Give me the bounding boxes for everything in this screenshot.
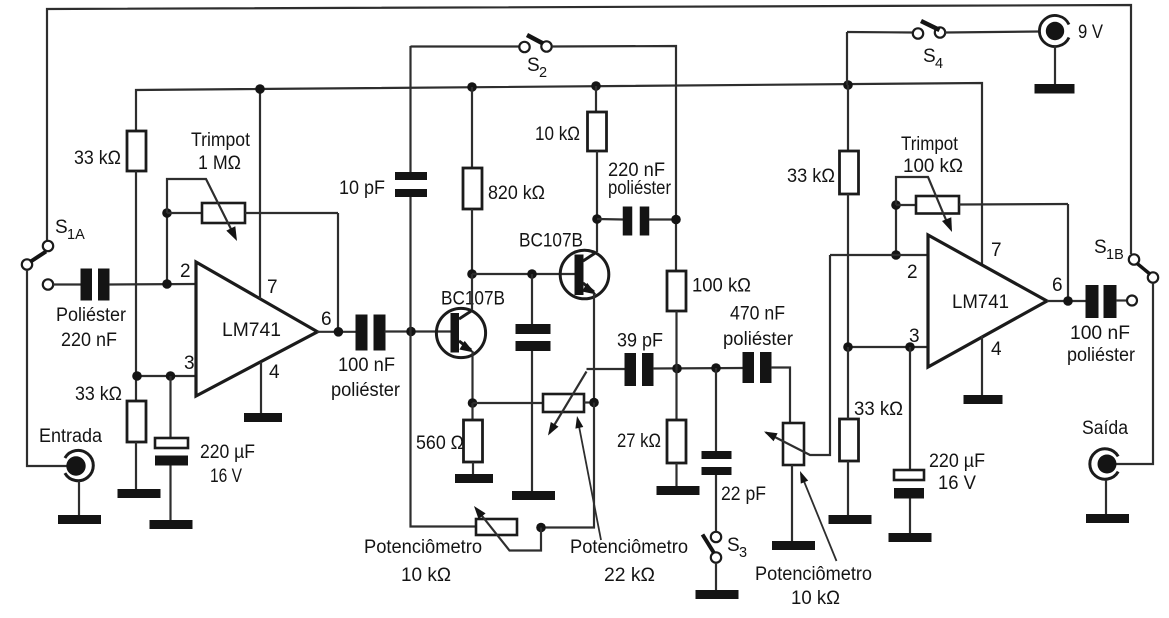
node rail 10k [591,81,601,91]
svg-text:4: 4 [991,339,1002,360]
wire 220nF mid right [649,218,676,220]
wire S4 left [847,31,913,34]
wire trimpot left drop to pin2 [166,213,168,284]
wire rail to 820k [471,87,473,168]
wire S2 right [552,46,676,271]
svg-text:39 pF: 39 pF [617,331,663,352]
wire cap to output circle [1116,299,1127,301]
jack Saída [1090,449,1118,479]
wire pin4 U1 [260,362,262,413]
wire node to 27k [675,368,677,420]
resistor 100k [667,271,686,311]
svg-text:Saída: Saída [1082,418,1128,439]
wire 39pF left [587,368,626,370]
wire 33k divider [135,171,137,401]
svg-text:7: 7 [991,240,1002,261]
wire 27k to ground [675,463,677,486]
svg-text:Potenciômetro: Potenciômetro [570,537,688,558]
svg-text:3: 3 [909,326,920,347]
leader 22k pot [578,420,601,540]
wire 220uF branch [169,376,171,438]
open terminal output [1127,296,1137,306]
wire Q2 emitter down [593,294,595,402]
wire pot 22k [473,402,544,404]
wire Saida to ground [1105,480,1107,514]
wire pin2 U2 [830,254,928,256]
svg-text:Trimpot: Trimpot [191,130,251,151]
switch S1A [43,241,53,251]
resistor 27k [667,420,686,463]
svg-text:220 µF: 220 µF [929,451,985,472]
wire battery to ground [1054,46,1056,84]
transistor Q1 BC107B [436,308,485,357]
wire U1 output [317,331,356,333]
capacitor 39 pF [625,353,637,386]
wire 33k right to ground [847,461,849,515]
wire S3 to ground [715,563,717,590]
capacitor 100nF poliester right [1086,285,1099,318]
wire 220uF to ground [169,466,171,521]
svg-text:1B: 1B [1106,247,1124,263]
wire pin4 U2 [981,336,983,395]
svg-text:LM741: LM741 [222,320,281,341]
wire 10k to Q2 collector [596,151,598,252]
svg-text:Potenciômetro: Potenciômetro [755,564,872,585]
pot 10k bottom wiper [477,509,542,551]
svg-text:Potenciômetro: Potenciômetro [364,537,482,558]
resistor 10k [588,112,607,151]
ground 220uF left [150,520,193,529]
wire emitter to 560 [471,403,473,420]
capacitor 100nF poliester left [356,315,368,351]
pot 22k wiper [550,372,587,434]
wire 22pF to S3 [715,475,717,532]
wire S4 drop [846,32,848,85]
ground 560R [455,474,493,483]
wire S2 left [411,45,520,47]
svg-text:2: 2 [539,65,547,81]
ground 9V [1035,84,1075,94]
wire pot right to ground [791,465,793,541]
wire 220uF right to ground [909,499,911,534]
wire top border [47,5,1131,254]
trimpot 1M body [167,212,202,214]
wire rail to 33k right [847,85,849,151]
svg-text:poliéster: poliéster [1067,345,1136,366]
svg-text:6: 6 [1052,275,1063,296]
wire mid cap branch [531,274,533,324]
svg-text:820 kΩ: 820 kΩ [488,183,545,204]
node rail 820k [467,82,477,92]
svg-text:100 nF: 100 nF [338,355,395,376]
transistor Q2 BC107B [560,250,609,299]
wire trimpot right drop [895,205,897,255]
wire U2 output [1047,300,1086,302]
svg-text:100 nF: 100 nF [1070,323,1130,344]
pot 10k bottom body [476,519,517,535]
node emitter Q1 [468,398,478,408]
svg-text:16 V: 16 V [210,466,242,487]
resistor 33k lower-right [840,419,859,461]
node pin3 wire right [848,346,928,348]
svg-text:S: S [527,55,540,76]
wire cap to Q1 base [385,330,452,332]
svg-text:S: S [923,46,936,67]
ground 220uF right [889,533,932,542]
svg-text:S: S [727,535,740,556]
wire S4 to battery [945,32,1040,33]
switch S4 [913,28,923,38]
svg-text:16 V: 16 V [938,473,976,494]
svg-text:10 kΩ: 10 kΩ [791,588,840,609]
wire feedback drop left [337,213,339,332]
trimpot 1M wiper [167,179,234,235]
svg-text:33 kΩ: 33 kΩ [75,384,122,405]
capacitor mid to ground [516,324,551,334]
svg-text:10 kΩ: 10 kΩ [401,565,451,586]
switch S3 [711,532,721,542]
svg-text:9 V: 9 V [1078,22,1103,43]
wire 470nF to pot [771,368,790,424]
svg-text:7: 7 [267,277,278,298]
svg-text:560 Ω: 560 Ω [416,433,464,454]
wire 100k to node [675,311,677,368]
svg-text:220 nF: 220 nF [61,330,117,351]
wire V+ rail [136,83,982,265]
pot 10k right wiper [766,255,830,455]
op-amp U1 LM741 [196,262,318,396]
svg-text:6: 6 [321,309,332,330]
svg-text:33 kΩ: 33 kΩ [854,399,903,420]
svg-text:10 kΩ: 10 kΩ [535,124,580,145]
wire mid cap to ground [531,351,533,491]
svg-text:Trimpot: Trimpot [901,134,959,155]
svg-text:Entrada: Entrada [39,426,102,447]
capacitor 220nF poliester mid [623,207,633,236]
wire Entrada to ground [78,481,80,515]
ground U2 [964,395,1003,404]
resistor 820k [463,168,482,209]
wire 560 to ground [472,462,474,474]
ground mid cap [512,491,555,500]
svg-text:LM741: LM741 [952,292,1009,313]
svg-text:100 kΩ: 100 kΩ [903,156,963,177]
svg-text:470 nF: 470 nF [730,304,785,325]
wire S1B to Saida [1115,283,1153,464]
svg-text:4: 4 [269,362,280,383]
svg-text:220 µF: 220 µF [200,442,255,463]
capacitor 22 pF [702,451,732,459]
resistor 33k upper-right [840,151,859,194]
resistor 33k upper-left [127,131,146,171]
wire 820k to collector node [471,209,473,274]
svg-text:27 kΩ: 27 kΩ [617,431,661,452]
wire emitter Q2 to pot 10k [541,403,594,528]
svg-text:3: 3 [739,545,747,561]
pot 10k right body [783,423,804,465]
svg-text:S: S [55,217,68,238]
wire 220uF right branch [909,347,911,470]
svg-text:22 kΩ: 22 kΩ [604,565,655,586]
ground 33k lower-right [829,515,872,524]
ground U1 [244,413,282,422]
svg-text:3: 3 [184,353,195,374]
svg-text:22 pF: 22 pF [721,484,766,505]
ground pot right [772,541,815,550]
svg-text:100 kΩ: 100 kΩ [692,276,751,297]
wire base Q2 [472,273,575,275]
op-amp U2 LM741 [928,235,1047,367]
svg-text:4: 4 [935,56,943,72]
jack 9V battery [1039,16,1069,47]
wire Q1 emitter down [471,351,473,403]
wire cap to pin2 [109,283,196,286]
ground 27k [657,486,700,495]
svg-text:S: S [1094,237,1107,258]
svg-text:2: 2 [180,261,191,282]
capacitor 10 pF [395,172,427,180]
leader pot right [801,474,837,561]
svg-text:33 kΩ: 33 kΩ [74,148,121,169]
capacitor 220uF 16V right electrolytic [894,470,924,480]
wire 33k right to box [847,347,849,419]
wire pin7 U1 [259,89,261,299]
jack Entrada [65,450,93,480]
wire 39pF to 470nF [653,367,743,370]
svg-text:2: 2 [907,262,918,283]
svg-text:BC107B: BC107B [519,231,583,252]
capacitor 220nF poliester input [81,269,93,301]
wire feedback drop right [1067,204,1069,301]
ground Saída [1086,514,1129,523]
svg-text:10 pF: 10 pF [339,178,385,199]
svg-text:33 kΩ: 33 kΩ [787,166,835,187]
ground Entrada [58,515,101,524]
switch S1B [1129,254,1139,264]
trimpot 100k body [896,204,916,206]
wire to 220nF mid [597,218,623,221]
node pin3 wire left [136,375,196,377]
resistor 560R [464,420,483,462]
wire S1A to Entrada [27,270,67,466]
node rail S4 [843,80,853,90]
wire Q1 collector up [471,274,473,310]
wire 10pF to S2 [409,46,411,172]
capacitor 470nF poliester [743,352,755,383]
wire to 22pF [715,368,717,451]
ground 33k lower-left [118,489,161,498]
node collector Q1 [467,269,477,279]
wire node A down [411,332,477,527]
svg-text:poliéster: poliéster [331,380,401,401]
wire node A up [409,197,411,332]
svg-text:poliéster: poliéster [608,178,672,199]
capacitor 220uF 16V left electrolytic [155,438,188,448]
ground S3 [696,590,739,599]
wire rail to 10k [595,86,597,112]
trimpot 100k wiper [896,177,949,227]
svg-text:1 MΩ: 1 MΩ [198,153,241,174]
switch S2 [519,42,529,52]
svg-text:poliéster: poliéster [723,329,794,350]
wire 33k to ground [135,442,137,489]
wire 33k right divider [847,194,849,347]
resistor 33k lower-left [127,401,146,442]
svg-text:Poliéster: Poliéster [56,305,127,326]
wire input circle to cap [53,283,81,285]
svg-text:1A: 1A [67,227,85,243]
